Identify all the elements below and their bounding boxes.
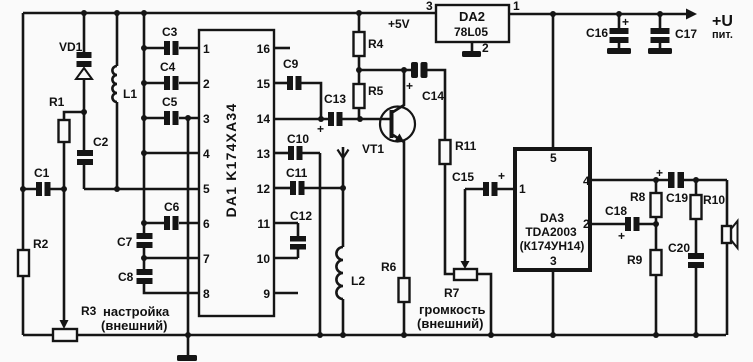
node R7 bottom rail	[488, 332, 494, 338]
svg-text:3: 3	[426, 0, 433, 13]
wire pin 9 stub	[274, 292, 298, 295]
label громкость (внешний)	[417, 302, 485, 331]
svg-text:C16: C16	[586, 26, 608, 40]
svg-text:TDA2003: TDA2003	[525, 225, 577, 239]
svg-text:+: +	[317, 122, 324, 136]
svg-text:настройка: настройка	[103, 304, 170, 319]
node L2 bottom	[340, 332, 346, 338]
svg-text:R7: R7	[444, 286, 460, 300]
node C9 branch on pin14 wire	[318, 116, 324, 122]
svg-text:11: 11	[257, 217, 270, 231]
arrowhead +U supply	[686, 9, 697, 20]
svg-text:C20: C20	[668, 241, 690, 255]
wire C20 bottom	[695, 268, 698, 335]
node R5 bottom	[357, 116, 363, 122]
svg-text:C11: C11	[286, 166, 308, 180]
svg-text:R6: R6	[381, 260, 397, 274]
svg-text:C13: C13	[324, 92, 346, 106]
svg-text:C2: C2	[93, 135, 109, 149]
capacitor C14	[406, 62, 444, 103]
svg-text:78L05: 78L05	[454, 25, 488, 39]
node ground line bottom	[185, 332, 191, 338]
node R9 bottom	[653, 332, 659, 338]
resistor R4	[354, 13, 384, 56]
wire pin 7 row	[144, 257, 199, 260]
wire R6 bottom	[403, 302, 406, 335]
node R4 top	[356, 10, 362, 16]
svg-text:(К174УН14): (К174УН14)	[520, 239, 585, 253]
speaker BA1	[722, 221, 738, 248]
svg-text:VD1: VD1	[59, 40, 83, 54]
svg-text:7: 7	[203, 252, 210, 266]
wire top rail left	[23, 12, 436, 15]
node C18 right	[653, 221, 659, 227]
wire R9 bottom	[655, 275, 658, 335]
svg-text:VT1: VT1	[362, 142, 384, 156]
capacitor C18	[590, 204, 656, 243]
svg-text:пит.: пит.	[712, 29, 733, 41]
wire pin 14 row	[274, 118, 328, 121]
resistor R6	[381, 260, 410, 302]
node pin1 rail	[141, 45, 147, 51]
label +U пит.	[712, 13, 733, 41]
svg-text:5: 5	[203, 182, 210, 196]
svg-text:2: 2	[482, 41, 489, 55]
svg-text:14: 14	[257, 112, 271, 126]
DA1 pin numbers left	[203, 42, 210, 301]
potentiometer R7	[444, 269, 477, 300]
node C11 to antenna line	[340, 185, 346, 191]
svg-text:C18: C18	[605, 204, 627, 218]
voltage regulator DA2 78L05	[436, 5, 509, 42]
capacitor C5	[144, 95, 199, 125]
wire C2 to pin5 row	[83, 165, 86, 189]
capacitor C19	[656, 166, 688, 205]
svg-text:R3: R3	[81, 304, 97, 318]
node C20 bottom	[693, 332, 699, 338]
ground bar C17	[648, 48, 672, 54]
node pin4 rail	[141, 150, 147, 156]
wire top rail right	[509, 13, 687, 16]
capacitor C7	[117, 233, 153, 249]
svg-text:+U: +U	[712, 13, 733, 30]
svg-text:5: 5	[550, 151, 557, 165]
svg-text:C14: C14	[422, 89, 444, 103]
inductor L2	[336, 247, 365, 335]
capacitor C3	[144, 25, 199, 55]
svg-text:громкость: громкость	[419, 302, 485, 317]
wire speaker line	[726, 180, 727, 335]
node C1 right	[61, 186, 67, 192]
svg-text:C10: C10	[287, 132, 309, 146]
potentiometer R3	[53, 329, 77, 341]
DA1 pin numbers right	[257, 42, 271, 301]
svg-text:(внешний): (внешний)	[417, 316, 483, 331]
resistor R1	[49, 95, 70, 142]
svg-text:1: 1	[203, 42, 210, 56]
DA2 pin 1 label	[513, 0, 520, 13]
wire R5 bottom to base row	[358, 108, 361, 119]
node VD1 top	[81, 10, 87, 16]
capacitor C17	[651, 14, 698, 48]
wire R7 wiper to C15	[464, 189, 467, 262]
wire C7 to pin7 row	[143, 248, 146, 258]
svg-text:16: 16	[257, 42, 271, 56]
node C10 line bottom	[317, 332, 323, 338]
resistor R5	[354, 84, 384, 108]
svg-text:3: 3	[203, 112, 210, 126]
wire DA3 pin5 to rail	[552, 14, 555, 149]
svg-text:R8: R8	[630, 190, 646, 204]
node C7/C8	[141, 255, 147, 261]
amplifier U3 DA3 TDA2003 body	[515, 149, 590, 270]
node L1 top	[114, 10, 120, 16]
node pin3 ground branch	[185, 115, 191, 121]
DA2 pin 2 stub and ground	[462, 41, 489, 57]
svg-text:DA3: DA3	[540, 211, 564, 225]
svg-text:DA1 K174XA34: DA1 K174XA34	[223, 103, 239, 218]
svg-text:+5V: +5V	[388, 17, 410, 31]
node C6 rail	[141, 220, 147, 226]
node VT1 collector branch	[401, 67, 407, 73]
node L1 bottom	[114, 186, 120, 192]
svg-text:+: +	[656, 166, 663, 180]
svg-text:C19: C19	[666, 191, 688, 205]
transistor Q1 VT1	[362, 70, 415, 278]
svg-text:R9: R9	[627, 253, 643, 267]
svg-text:8: 8	[203, 287, 210, 301]
capacitor C2	[77, 135, 109, 165]
node R6 bottom	[401, 332, 407, 338]
wire C13 to VT1 base	[343, 118, 391, 121]
svg-text:R2: R2	[33, 237, 49, 251]
capacitor C16	[586, 14, 629, 48]
node cap rail top	[141, 10, 147, 16]
wire C19 to speaker line	[684, 179, 727, 182]
arrow R3 wiper	[60, 320, 69, 329]
wire bottom rail	[23, 334, 726, 337]
varicap diode VD1	[59, 13, 92, 150]
svg-text:C1: C1	[34, 166, 50, 180]
svg-text:R11: R11	[455, 139, 477, 153]
resistor R9	[627, 250, 662, 275]
resistor R2	[18, 237, 49, 276]
wire R8 to R9	[655, 217, 658, 250]
op-amp U1 DA1 K174XA34 chip body	[199, 30, 274, 316]
svg-text:R4: R4	[368, 37, 384, 51]
resistor R10	[691, 180, 726, 219]
wire pin 5 row	[84, 188, 199, 191]
node C17 rail	[657, 11, 663, 17]
svg-text:+: +	[622, 15, 629, 29]
label +5V	[388, 17, 410, 31]
svg-text:DA2: DA2	[459, 9, 485, 24]
DA2 pin 3 label	[426, 0, 433, 13]
capacitor C8	[118, 258, 153, 284]
svg-text:C5: C5	[162, 95, 178, 109]
svg-text:2: 2	[203, 77, 210, 91]
wire DA3 pin3 to bottom rail	[552, 270, 555, 335]
wire left capacitor rail	[143, 13, 146, 233]
svg-text:+: +	[406, 79, 413, 93]
node R4/R5/C14 branch	[356, 67, 362, 73]
svg-text:C15: C15	[452, 170, 474, 184]
capacitor C10	[274, 132, 320, 160]
svg-text:1: 1	[513, 0, 520, 13]
wire R4 to R5	[358, 56, 361, 84]
capacitor C20	[668, 241, 704, 268]
wire DA3 pin4 row	[590, 179, 668, 182]
svg-text:C6: C6	[164, 200, 180, 214]
svg-text:C7: C7	[117, 235, 133, 249]
wire C14 to R11	[428, 70, 446, 140]
node C16 rail	[616, 11, 622, 17]
node C1 left	[20, 186, 26, 192]
node R8 top	[653, 177, 659, 183]
svg-text:1: 1	[519, 182, 526, 196]
node pin2 rail	[141, 80, 147, 86]
wire C8 to pin 8 row	[144, 284, 199, 293]
svg-text:L1: L1	[123, 87, 137, 101]
svg-text:R10: R10	[703, 193, 725, 207]
svg-text:10: 10	[257, 252, 271, 266]
node pin3 rail	[141, 115, 147, 121]
wire R2 to bottom rail	[22, 276, 25, 335]
svg-text:+: +	[498, 169, 505, 183]
capacitor C6	[144, 200, 199, 230]
wire R1 top to VD1 line	[64, 112, 84, 120]
wire R3 wiper from R1/C1 node	[63, 142, 66, 321]
DA3 pin labels	[519, 151, 590, 268]
svg-text:R5: R5	[368, 84, 384, 98]
svg-text:+: +	[618, 229, 625, 243]
svg-text:9: 9	[263, 287, 270, 301]
capacitor C9	[274, 57, 321, 119]
capacitor C15	[452, 169, 514, 196]
wire pin 4 row	[144, 152, 199, 155]
ground bar bottom	[177, 355, 197, 361]
wire ground rail vertical x188	[187, 118, 190, 355]
node DA3 pin3 rail	[550, 332, 556, 338]
svg-text:C4: C4	[160, 60, 176, 74]
capacitor C4	[144, 60, 199, 90]
antenna	[338, 147, 349, 247]
ground bar C16	[607, 48, 631, 54]
arrow R7 wiper	[461, 261, 470, 269]
svg-text:L2: L2	[351, 274, 365, 288]
wire R11 to R7 left	[445, 164, 454, 274]
capacitor C12	[274, 209, 312, 258]
wire pin 16 stub	[274, 47, 290, 50]
wire left rail	[22, 13, 25, 250]
inductor L1	[112, 13, 137, 189]
svg-text:2: 2	[583, 217, 590, 231]
label R3 настройка (внешний)	[81, 304, 170, 333]
svg-text:4: 4	[583, 174, 590, 188]
svg-text:C3: C3	[162, 25, 178, 39]
wire R10 to C20	[695, 219, 698, 253]
svg-text:C12: C12	[290, 209, 312, 223]
resistor R11	[440, 139, 477, 164]
svg-text:15: 15	[257, 77, 271, 91]
svg-text:6: 6	[203, 217, 210, 231]
wire R7 right to bottom rail	[477, 274, 491, 335]
node DA3 pin5 rail	[550, 11, 556, 17]
svg-text:C17: C17	[675, 27, 697, 41]
svg-text:13: 13	[257, 147, 271, 161]
svg-text:C8: C8	[118, 270, 134, 284]
svg-text:12: 12	[257, 182, 271, 196]
svg-text:R1: R1	[49, 95, 65, 109]
resistor R8	[630, 180, 662, 217]
svg-text:(внешний): (внешний)	[101, 318, 167, 333]
node R1/VD1	[81, 109, 87, 115]
node R10 top	[693, 177, 699, 183]
capacitor C1	[23, 166, 64, 196]
svg-text:C9: C9	[283, 57, 299, 71]
capacitor C13	[317, 92, 346, 136]
svg-text:3: 3	[550, 254, 557, 268]
svg-text:4: 4	[203, 147, 210, 161]
wire C10 ground line	[319, 153, 322, 335]
wire collector feed	[359, 69, 412, 72]
capacitor C11	[274, 166, 343, 195]
